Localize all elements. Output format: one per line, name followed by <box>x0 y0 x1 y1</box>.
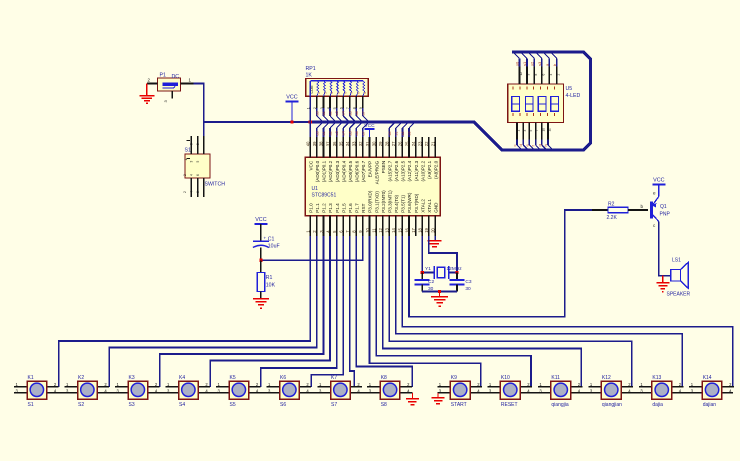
U1 top pin names <box>309 160 439 184</box>
wire RP1 pin1 / U1 VCC pin <box>309 96 311 137</box>
svg-text:(A13)P2.5: (A13)P2.5 <box>401 160 406 181</box>
svg-text:s0: s0 <box>388 131 392 135</box>
svg-text:K11: K11 <box>551 375 560 381</box>
power symbol VCC (left) <box>286 95 299 123</box>
wire U1 P1.7 to K8 <box>356 236 412 387</box>
svg-text:K3: K3 <box>129 375 135 381</box>
RP1 pin numbers <box>307 107 364 109</box>
svg-text:SPEAKER: SPEAKER <box>667 292 691 298</box>
button K14 (dajian) <box>689 375 734 408</box>
button K10 (RESET) <box>487 375 532 408</box>
svg-text:S4: S4 <box>179 402 185 408</box>
svg-text:C1: C1 <box>268 237 275 243</box>
svg-text:19: 19 <box>424 227 429 232</box>
svg-text:2: 2 <box>556 74 560 76</box>
U5 bottom pin wires to bus <box>512 122 553 150</box>
capacitor C2 30 <box>415 273 435 293</box>
svg-text:31: 31 <box>365 141 370 146</box>
svg-text:GND: GND <box>434 202 439 213</box>
capacitor C1 10uF <box>253 236 280 250</box>
svg-text:VCC: VCC <box>286 95 297 101</box>
svg-text:(AD6)P0.6: (AD6)P0.6 <box>355 160 360 182</box>
svg-text:P1: P1 <box>160 73 166 79</box>
svg-text:(A9)P2.1: (A9)P2.1 <box>427 160 432 179</box>
button K5 (S5) <box>216 375 261 408</box>
svg-text:P3.4(T0): P3.4(T0) <box>394 194 399 212</box>
svg-text:21: 21 <box>431 141 436 146</box>
button K7 (S7) <box>318 375 363 408</box>
svg-text:35: 35 <box>339 141 344 146</box>
wire U1 P1.1 to K2 <box>109 236 317 387</box>
svg-text:23: 23 <box>417 141 422 146</box>
svg-text:K14: K14 <box>703 375 712 381</box>
wire U1 P1.0 to K1 <box>59 236 311 387</box>
svg-text:(A8)P2.0: (A8)P2.0 <box>434 160 439 179</box>
svg-text:a4: a4 <box>342 131 346 135</box>
power ground at P1 pin 2 <box>139 84 154 104</box>
page edge <box>0 461 740 463</box>
wire U1 P1.3 to K4 <box>210 236 330 387</box>
junction bus start <box>309 120 312 123</box>
button K12 (qiangjian) <box>588 375 633 408</box>
svg-text:R1: R1 <box>266 275 273 281</box>
resistor pack RP1 1K <box>306 66 369 96</box>
svg-text:DC: DC <box>172 74 180 80</box>
svg-text:5: 5 <box>529 130 533 132</box>
U5 internal pin labels <box>513 87 555 116</box>
svg-text:S6: S6 <box>280 402 286 408</box>
svg-text:(AD5)P0.5: (AD5)P0.5 <box>348 160 353 182</box>
svg-text:17: 17 <box>411 227 416 232</box>
svg-text:S1: S1 <box>28 402 34 408</box>
svg-text:a4: a4 <box>342 111 346 115</box>
svg-text:S1: S1 <box>185 148 191 154</box>
svg-text:12: 12 <box>519 72 523 76</box>
wire U1 P3.5 to K14 <box>402 236 732 387</box>
svg-text:K7: K7 <box>331 375 337 381</box>
svg-text:3: 3 <box>523 130 527 132</box>
junction RST node <box>259 259 262 262</box>
svg-text:6: 6 <box>542 74 546 76</box>
svg-text:(AD7)P0.7: (AD7)P0.7 <box>361 160 366 182</box>
svg-text:+: + <box>264 236 267 241</box>
button K1 (S1) <box>14 375 59 408</box>
connector P1 (DC power jack) <box>158 73 181 92</box>
svg-text:(A11)P2.3: (A11)P2.3 <box>414 160 419 181</box>
svg-text:36: 36 <box>332 141 337 146</box>
U1 P2.7-P2.4 wires to bus with net labels <box>388 122 415 137</box>
junction crystal right <box>455 271 458 274</box>
svg-text:25: 25 <box>404 141 409 146</box>
svg-text:(AD0)P0.0: (AD0)P0.0 <box>315 160 320 182</box>
button K4 (S4) <box>166 375 211 408</box>
svg-text:9: 9 <box>527 74 531 76</box>
transistor Q1 PNP <box>641 191 671 229</box>
svg-text:1: 1 <box>517 130 521 132</box>
svg-text:EA/VPP: EA/VPP <box>368 161 373 178</box>
wire U1 P1.2 to K3 <box>160 236 324 387</box>
svg-text:8: 8 <box>534 74 538 76</box>
svg-text:2.2K: 2.2K <box>607 215 618 221</box>
svg-text:5: 5 <box>196 161 200 163</box>
svg-text:27: 27 <box>391 141 396 146</box>
wire button row 1 common (K1-K8 lower rail) <box>14 392 412 394</box>
button K13 (dajia) <box>639 375 684 408</box>
speaker LS1 <box>667 258 691 298</box>
display U5 4-LED body <box>508 84 581 122</box>
svg-text:SWITCH: SWITCH <box>205 182 226 188</box>
svg-text:P3.7(RD): P3.7(RD) <box>414 193 419 213</box>
svg-text:START: START <box>451 402 467 408</box>
U5 digit segments <box>512 97 559 112</box>
capacitor C3 30 <box>450 273 472 293</box>
wire P3.6 to R2 <box>409 210 592 317</box>
svg-text:18: 18 <box>417 227 422 232</box>
svg-text:K9: K9 <box>451 375 457 381</box>
button K6 (S6) <box>267 375 312 408</box>
op-amp U1 STC89C51 microcontroller body <box>305 157 440 215</box>
svg-text:24: 24 <box>411 141 416 146</box>
svg-text:30: 30 <box>371 141 376 146</box>
svg-text:K2: K2 <box>78 375 84 381</box>
svg-text:PSEN: PSEN <box>381 161 386 174</box>
svg-text:7: 7 <box>535 130 539 132</box>
svg-text:qiangjia: qiangjia <box>551 402 568 408</box>
svg-text:P3.0(RXD): P3.0(RXD) <box>368 190 373 213</box>
svg-text:a3: a3 <box>335 131 339 135</box>
svg-text:4: 4 <box>190 191 194 193</box>
wire U1 P3.3 to K12 <box>389 236 632 387</box>
svg-text:14: 14 <box>391 227 396 232</box>
svg-text:38: 38 <box>319 141 324 146</box>
svg-text:4-LED: 4-LED <box>566 93 581 99</box>
svg-text:11: 11 <box>548 128 552 132</box>
svg-text:ALE/PROG: ALE/PROG <box>374 160 379 184</box>
svg-text:K6: K6 <box>280 375 286 381</box>
svg-text:RESET: RESET <box>501 402 518 408</box>
svg-text:a6: a6 <box>355 131 359 135</box>
svg-text:39: 39 <box>312 141 317 146</box>
svg-text:s3: s3 <box>408 131 412 135</box>
ground after K8 <box>406 393 419 405</box>
svg-text:dajia: dajia <box>652 402 663 408</box>
svg-text:40: 40 <box>306 141 311 146</box>
U5 top pin wires from bus <box>513 52 560 84</box>
svg-text:26: 26 <box>398 141 403 146</box>
wire U1 P1.5 to K6 <box>311 236 343 387</box>
svg-text:(A12)P2.4: (A12)P2.4 <box>407 160 412 181</box>
svg-text:S3: S3 <box>129 402 135 408</box>
svg-text:13: 13 <box>385 227 390 232</box>
svg-text:4: 4 <box>190 174 194 176</box>
svg-text:dajian: dajian <box>703 402 717 408</box>
svg-text:s1: s1 <box>394 131 398 135</box>
button K11 (qiangjia) <box>538 375 583 408</box>
ground before K9 <box>432 393 445 404</box>
wire VCC rail (P1 to bus) <box>204 121 310 123</box>
svg-text:a3: a3 <box>335 111 339 115</box>
power symbol VCC at U1 EA pin <box>364 123 375 137</box>
svg-text:VCC: VCC <box>364 123 375 129</box>
switch S1 <box>185 148 211 179</box>
ground at speaker <box>656 276 669 292</box>
svg-text:Y1: Y1 <box>425 266 431 272</box>
svg-text:P1.6: P1.6 <box>348 203 353 213</box>
wire U1 P1.6 to K7 <box>350 236 354 387</box>
svg-text:VCC: VCC <box>309 160 314 170</box>
U1 bottom pins with numbers <box>306 216 436 236</box>
bus wire (P0/P2 data bus around U5) <box>310 52 590 150</box>
pin 2 wire of P1 <box>147 78 158 84</box>
svg-text:XTAL2: XTAL2 <box>420 199 425 213</box>
svg-text:1K: 1K <box>306 73 313 79</box>
wire U1 P3.2 to K11 <box>383 236 582 387</box>
S1 bottom pins <box>183 174 204 197</box>
svg-text:2: 2 <box>183 191 187 193</box>
crystal Y1 12MHz <box>422 266 462 279</box>
svg-text:10: 10 <box>541 128 545 132</box>
svg-text:P1.0: P1.0 <box>309 203 314 213</box>
svg-text:Q1: Q1 <box>660 204 667 210</box>
svg-text:28: 28 <box>385 141 390 146</box>
junction crystal left <box>421 271 424 274</box>
resistor R1 10K <box>257 260 275 291</box>
svg-text:2: 2 <box>183 174 187 176</box>
svg-text:5: 5 <box>196 143 200 145</box>
svg-text:K1: K1 <box>28 375 34 381</box>
svg-text:a7: a7 <box>361 131 365 135</box>
svg-text:P1.4: P1.4 <box>335 203 340 213</box>
wire U1 P1.4 to K5 <box>261 236 337 387</box>
junction VCC rail <box>290 120 293 123</box>
svg-text:a0: a0 <box>315 111 319 115</box>
U1 bottom pin names <box>309 190 439 213</box>
svg-text:P1.3: P1.3 <box>328 203 333 213</box>
RP1 resistor elements <box>317 81 367 96</box>
svg-text:e: e <box>653 191 656 196</box>
svg-text:K13: K13 <box>652 375 661 381</box>
resistor R2 2.2K <box>592 202 648 222</box>
svg-text:32: 32 <box>358 141 363 146</box>
svg-text:a5: a5 <box>348 131 352 135</box>
svg-text:K10: K10 <box>501 375 510 381</box>
button K9 (START) <box>437 375 482 408</box>
svg-text:12MHz: 12MHz <box>447 266 463 272</box>
svg-text:6: 6 <box>196 174 200 176</box>
svg-text:VCC: VCC <box>653 178 664 184</box>
svg-text:COM: COM <box>310 85 314 93</box>
svg-text:XTAL1: XTAL1 <box>427 199 432 213</box>
svg-text:10K: 10K <box>266 283 276 289</box>
svg-text:h: h <box>543 144 548 146</box>
svg-text:a1: a1 <box>322 111 326 115</box>
svg-text:22: 22 <box>424 141 429 146</box>
svg-text:11: 11 <box>371 228 376 233</box>
wire XTAL1 to crystal <box>429 236 457 273</box>
svg-text:34: 34 <box>345 141 350 146</box>
button K3 (S3) <box>115 375 160 408</box>
U1 top pins with numbers <box>306 137 436 157</box>
svg-text:P1.5: P1.5 <box>341 203 346 213</box>
svg-text:S2: S2 <box>78 402 84 408</box>
wire RST net <box>261 236 363 260</box>
ground at U1 GND pin <box>427 236 441 247</box>
svg-text:P3.1(TXD): P3.1(TXD) <box>374 191 379 213</box>
svg-text:K12: K12 <box>602 375 611 381</box>
svg-text:S7: S7 <box>331 402 337 408</box>
svg-text:K8: K8 <box>381 375 387 381</box>
svg-text:a5: a5 <box>348 111 352 115</box>
svg-text:S5: S5 <box>230 402 236 408</box>
wire U1 P3.4 to K13 <box>396 236 683 387</box>
svg-text:a2: a2 <box>329 131 333 135</box>
svg-text:s2: s2 <box>401 131 405 135</box>
svg-text:33: 33 <box>352 141 357 146</box>
svg-text:37: 37 <box>325 141 330 146</box>
svg-text:6: 6 <box>196 191 200 193</box>
wire Q1 collector to speaker <box>659 222 671 276</box>
svg-text:10uF: 10uF <box>268 244 280 250</box>
svg-text:C2: C2 <box>428 279 434 285</box>
RP1 common rail and COM pin <box>310 81 363 96</box>
wire C1 to junction <box>260 248 262 261</box>
svg-text:b: b <box>641 204 644 209</box>
svg-text:PNP: PNP <box>660 212 671 218</box>
svg-text:d: d <box>518 144 523 146</box>
button K2 (S2) <box>65 375 110 408</box>
svg-text:K4: K4 <box>179 375 185 381</box>
wire P1 pin1 to VCC rail <box>194 84 204 123</box>
svg-text:16: 16 <box>404 227 409 232</box>
svg-text:3: 3 <box>190 161 194 163</box>
svg-text:10: 10 <box>365 227 370 232</box>
svg-text:(A14)P2.6: (A14)P2.6 <box>394 160 399 181</box>
svg-text:3: 3 <box>190 143 194 145</box>
power symbol VCC at Q1 <box>652 178 665 197</box>
svg-text:P3.5(T1): P3.5(T1) <box>401 194 406 212</box>
button K8 (S8) <box>367 375 412 408</box>
svg-text:c: c <box>512 145 517 147</box>
svg-text:VCC: VCC <box>255 217 266 223</box>
svg-text:(AD4)P0.4: (AD4)P0.4 <box>341 160 346 182</box>
svg-text:30: 30 <box>465 286 471 292</box>
RP1 pin wires to bus with net labels <box>315 96 369 122</box>
svg-text:20: 20 <box>431 227 436 232</box>
svg-text:RST: RST <box>361 203 366 212</box>
svg-text:K5: K5 <box>230 375 236 381</box>
wire button row 2 common (K9-K14 lower rail) <box>437 392 733 394</box>
svg-text:15: 15 <box>398 227 403 232</box>
wire U1 P3.0 to K9 <box>370 236 481 387</box>
svg-text:(A10)P2.2: (A10)P2.2 <box>420 160 425 181</box>
svg-text:U5: U5 <box>566 86 573 92</box>
svg-text:a0: a0 <box>315 131 319 135</box>
svg-text:R2: R2 <box>608 202 615 208</box>
svg-text:g: g <box>537 144 542 146</box>
svg-text:(AD1)P0.1: (AD1)P0.1 <box>322 160 327 182</box>
svg-text:P3.6(WR): P3.6(WR) <box>407 192 412 213</box>
svg-text:4: 4 <box>549 74 553 76</box>
U1 P0 pin wires from bus with net labels <box>315 122 369 137</box>
svg-text:STC89C51: STC89C51 <box>312 193 337 199</box>
wire XTAL2 to crystal <box>421 236 423 273</box>
svg-text:a2: a2 <box>329 111 333 115</box>
svg-text:P1.7: P1.7 <box>355 203 360 213</box>
svg-text:12: 12 <box>378 227 383 232</box>
svg-text:29: 29 <box>378 141 383 146</box>
pin 3 stub of P1 <box>163 91 172 103</box>
svg-text:P3.2(INT0): P3.2(INT0) <box>381 190 386 213</box>
S1 top pins <box>184 136 204 163</box>
svg-text:a1: a1 <box>322 131 326 135</box>
svg-text:a7: a7 <box>361 111 365 115</box>
svg-text:qiangjian: qiangjian <box>602 402 622 408</box>
svg-text:a6: a6 <box>355 111 359 115</box>
wire crystal caps common <box>422 291 457 293</box>
svg-text:C3: C3 <box>465 279 471 285</box>
wire U1 P3.1 to K10 <box>376 236 531 387</box>
svg-text:P1.2: P1.2 <box>322 203 327 213</box>
junction caps common <box>438 290 441 293</box>
svg-text:RP1: RP1 <box>306 66 316 72</box>
svg-text:(A15)P2.7: (A15)P2.7 <box>387 160 392 181</box>
svg-text:(AD2)P0.2: (AD2)P0.2 <box>328 160 333 182</box>
svg-text:S8: S8 <box>381 402 387 408</box>
svg-text:LS1: LS1 <box>672 258 681 264</box>
svg-text:P1.1: P1.1 <box>315 203 320 213</box>
ground at crystal <box>431 292 448 307</box>
ground at R1 <box>253 292 269 309</box>
power symbol VCC at C1 <box>254 217 267 241</box>
svg-text:U1: U1 <box>312 186 319 192</box>
svg-text:(AD3)P0.3: (AD3)P0.3 <box>335 160 340 182</box>
pin 1 wire of P1 <box>181 78 194 84</box>
wire VCC rail to S1 pin 5 <box>203 122 205 136</box>
svg-text:P3.3(INT1): P3.3(INT1) <box>387 190 392 213</box>
